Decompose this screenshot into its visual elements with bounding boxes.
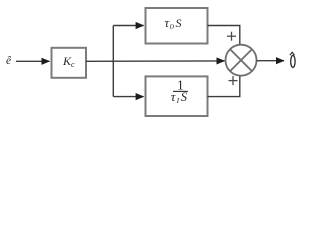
wire input arrow into K_c xyxy=(16,60,50,62)
wire from K_c to summing junction (middle path) xyxy=(86,60,225,62)
label 1 over tau_I s xyxy=(171,78,188,105)
wire from integral block to summing junction xyxy=(208,76,240,96)
wire from derivative block to summing junction xyxy=(208,26,240,45)
svg-text:ê: ê xyxy=(6,55,12,67)
block derivative tau_D s xyxy=(146,8,208,44)
wire branch to integral block xyxy=(113,96,143,98)
wire branch to derivative block xyxy=(113,25,143,27)
summing junction circle with X xyxy=(226,45,257,76)
node u-hat (output label) xyxy=(290,52,295,67)
block integral 1/(tau_I s) xyxy=(146,76,208,116)
plus sign (integral input) xyxy=(229,76,238,85)
wire branch vertical at node after K_c xyxy=(112,26,114,97)
wire output arrow from summing junction xyxy=(256,60,284,62)
block K_c controller gain xyxy=(52,48,87,78)
plus sign (derivative input) xyxy=(227,32,236,41)
